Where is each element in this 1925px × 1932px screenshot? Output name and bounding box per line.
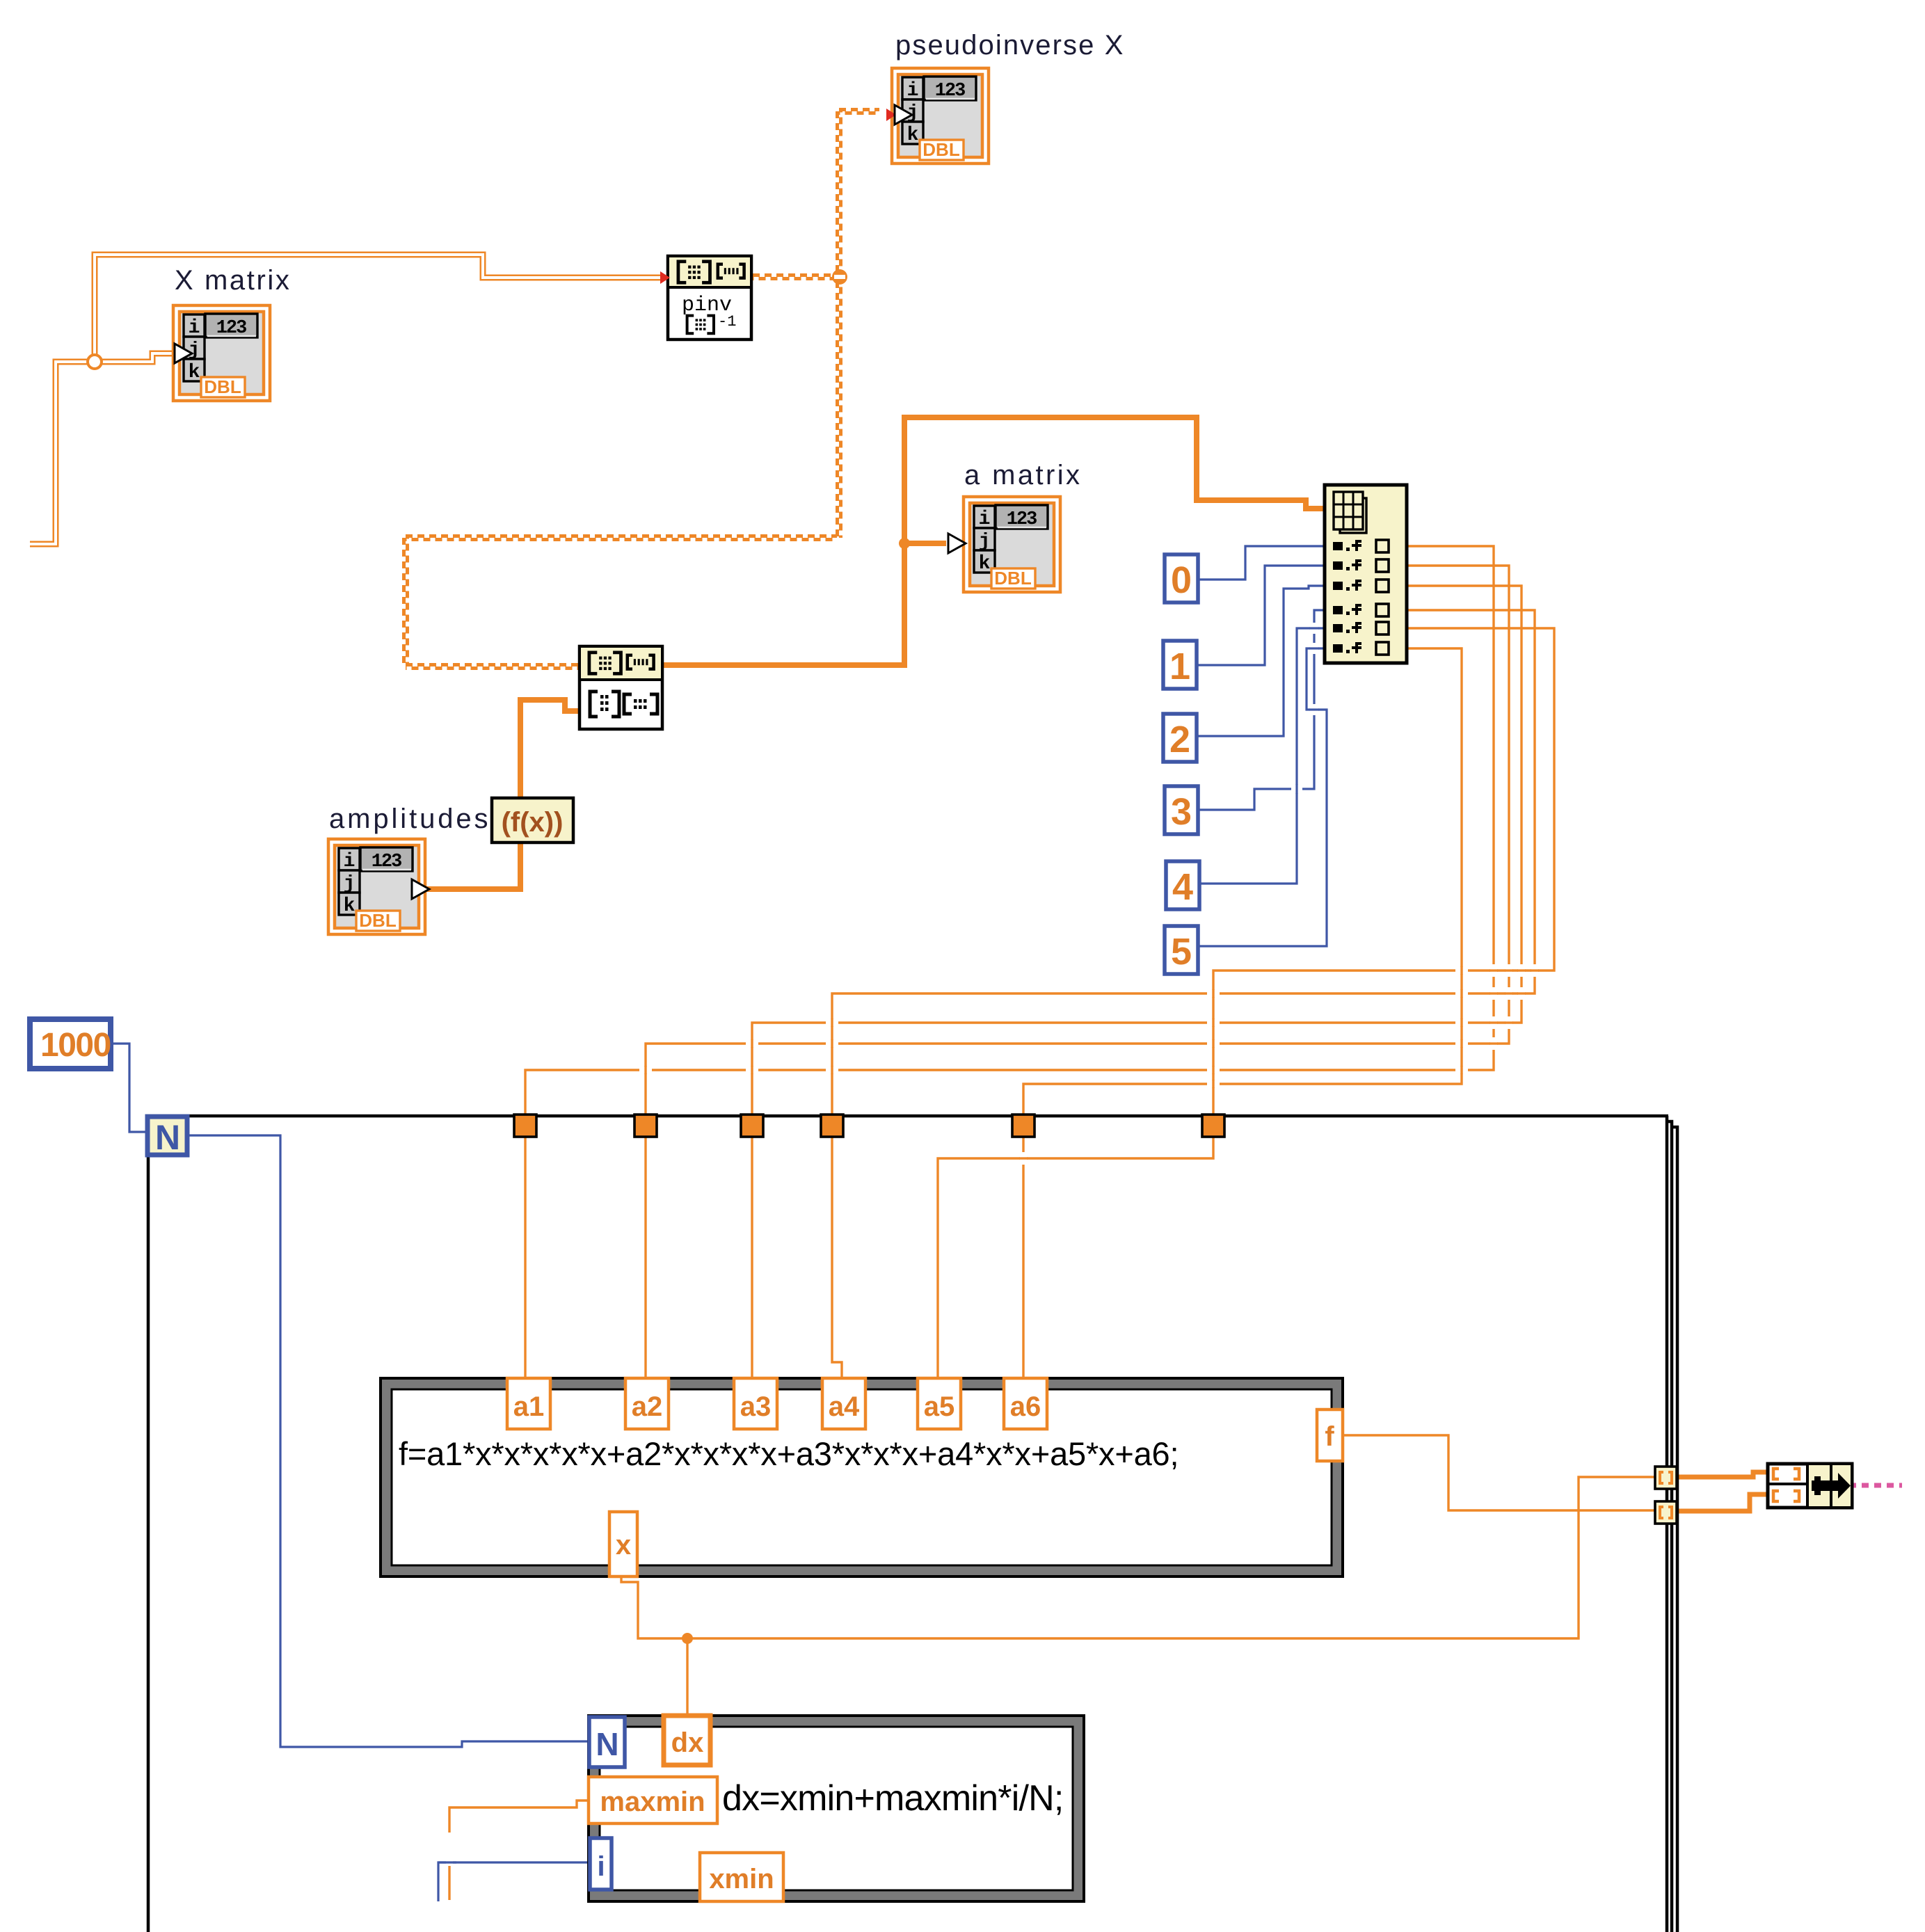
wire: tunnel to a2 <box>644 1127 646 1381</box>
wire: AxB result to Index Array <box>662 417 1326 665</box>
svg-text:xmin: xmin <box>709 1864 774 1894</box>
wire: index output row6 to loop tunnel <box>1023 648 1462 1115</box>
terminal N (formula 2) <box>589 1717 625 1767</box>
svg-text:N: N <box>596 1726 618 1762</box>
for loop count terminal N <box>147 1117 187 1155</box>
formula node 2 <box>589 1716 1084 1901</box>
bundle arrow <box>1812 1473 1851 1499</box>
wire: formula f output to tunnel <box>1343 1435 1656 1510</box>
svg-text:amplitudes: amplitudes <box>329 804 490 834</box>
svg-text:f=a1*x*x*x*x*x+a2*x*x*x*x+a3*x: f=a1*x*x*x*x*x+a2*x*x*x*x+a3*x*x*x+a4*x*… <box>399 1435 1179 1472</box>
svg-text:a4: a4 <box>829 1391 860 1422</box>
svg-text:N: N <box>155 1118 180 1157</box>
wire: constant 1 to index input 2 <box>1197 566 1325 665</box>
svg-text:2: 2 <box>1169 719 1190 760</box>
label box (f(x)) <box>492 798 573 843</box>
terminal f <box>1317 1410 1343 1461</box>
terminal a2 <box>625 1378 669 1429</box>
wire: matrix dashed into AxB multiply <box>406 663 580 666</box>
svg-text:x: x <box>616 1530 631 1560</box>
index row 1 glyphs <box>1333 540 1361 551</box>
index row 5 glyphs <box>1333 622 1361 633</box>
for loop top border <box>147 1115 1668 1118</box>
formula node 1 <box>381 1378 1343 1576</box>
svg-text:pseudoinverse X: pseudoinverse X <box>895 30 1124 61</box>
loop tunnel 2 <box>634 1115 657 1137</box>
wire: branch to X matrix input <box>91 353 174 362</box>
wire: matrix dashed vertical up to pseudoinverse X <box>836 111 839 273</box>
terminal xmin <box>700 1853 783 1901</box>
svg-text:-1: -1 <box>718 313 736 330</box>
wire: tunnel to a4 <box>832 1127 842 1381</box>
wire: matrix dashed horizontal left <box>406 534 837 538</box>
svg-text:a6: a6 <box>1010 1391 1041 1422</box>
svg-text:0: 0 <box>1171 559 1192 601</box>
wire: f array to bundle <box>1675 1494 1769 1511</box>
wire: tunnel to a6 <box>1022 1127 1024 1381</box>
loop tunnel 6 <box>1202 1115 1224 1137</box>
wire: X matrix branch to left edge <box>30 362 98 544</box>
wire: constant 5 to index input 6 <box>1197 648 1327 946</box>
wire: constant 2 to index input 3 <box>1197 586 1325 736</box>
wire crossing gaps (orange fan) <box>1455 967 1468 974</box>
svg-text:1000: 1000 <box>40 1027 111 1064</box>
indicator: pseudoinverse X <box>892 68 989 163</box>
svg-text:3: 3 <box>1171 791 1192 833</box>
wire: index output row5 to loop tunnel <box>1213 628 1554 1115</box>
wire: amplitudes to AxB <box>417 700 581 889</box>
wire crossing gaps (blue) <box>1291 785 1302 793</box>
loop tunnel 1 <box>514 1115 536 1137</box>
svg-text:1: 1 <box>1169 646 1190 687</box>
wire: index output row3 to loop tunnel <box>752 586 1521 1115</box>
wire: tunnel to a5 <box>938 1127 1213 1381</box>
node: pinv (pseudoinverse) <box>668 256 751 340</box>
wire: x array to bundle <box>1675 1472 1769 1477</box>
svg-text:maxmin: maxmin <box>600 1787 705 1817</box>
wire junction (X matrix) <box>88 355 102 369</box>
terminal dx <box>664 1716 710 1765</box>
wire: formula x output <box>621 1477 1656 1638</box>
wire: N to formula node N input <box>186 1135 590 1747</box>
for loop right border cascade <box>1666 1116 1669 1932</box>
wire: loop i to formula node i input <box>438 1862 591 1901</box>
wire: maxmin input <box>449 1801 590 1900</box>
wire junction (x/dx) <box>682 1633 693 1644</box>
svg-text:dx=xmin+maxmin*i/N;: dx=xmin+maxmin*i/N; <box>722 1778 1064 1819</box>
svg-text:4: 4 <box>1172 866 1193 908</box>
terminal a1 <box>507 1378 550 1429</box>
wire: 1000 to N count terminal <box>111 1044 147 1132</box>
svg-text:a1: a1 <box>513 1391 545 1422</box>
wire: index output row1 to loop tunnel <box>525 546 1494 1115</box>
wire: constant 3 to index input 4 <box>1197 610 1325 810</box>
svg-text:dx: dx <box>671 1727 704 1758</box>
loop indexing tunnel (upper) <box>1655 1467 1677 1489</box>
constant 3 <box>1165 786 1198 834</box>
wire: matrix dashed vertical down <box>836 281 839 538</box>
terminal maxmin <box>589 1777 717 1823</box>
terminal a6 <box>1004 1378 1047 1429</box>
node: A x B (matrix multiply) <box>580 646 662 729</box>
control: amplitudes <box>328 839 425 934</box>
loop tunnel 3 <box>741 1115 763 1137</box>
wire: matrix dashed vertical left segment <box>402 538 406 666</box>
loop tunnel 4 <box>821 1115 843 1137</box>
gap in maxmin wire <box>446 1833 453 1866</box>
matrix grid icon <box>1340 498 1366 533</box>
wire: branch to dx input <box>686 1638 688 1717</box>
index row 6 glyphs <box>1333 642 1361 653</box>
wire: index output row4 to loop tunnel <box>832 610 1535 1115</box>
svg-text:X matrix: X matrix <box>175 265 291 296</box>
terminal x <box>609 1512 637 1576</box>
index row 4 glyphs <box>1333 604 1361 615</box>
svg-text:5: 5 <box>1171 931 1192 973</box>
index row 3 glyphs <box>1333 580 1361 591</box>
wire: pinv output (matrix, dashed) <box>753 273 835 277</box>
wire: constant 0 to index input 1 <box>1197 546 1325 580</box>
constant 5 <box>1165 926 1198 974</box>
svg-text:i: i <box>597 1851 605 1882</box>
svg-text:(f(x)): (f(x)) <box>502 807 564 838</box>
constant 1000 <box>30 1019 111 1069</box>
svg-text:a3: a3 <box>740 1391 772 1422</box>
terminal a3 <box>734 1378 777 1429</box>
wire junction (a matrix) <box>899 538 910 549</box>
constant 2 <box>1163 714 1197 762</box>
svg-text:a5: a5 <box>924 1391 955 1422</box>
constant 1 <box>1163 641 1197 689</box>
node: Bundle <box>1768 1464 1852 1508</box>
indicator: X matrix <box>173 305 270 401</box>
constant 0 <box>1165 554 1198 602</box>
loop indexing tunnel (lower) <box>1655 1501 1677 1524</box>
for loop left border <box>147 1115 150 1932</box>
wire: branch to a matrix <box>904 541 946 546</box>
wire: index output row2 to loop tunnel <box>646 566 1509 1115</box>
svg-text:f: f <box>1325 1421 1334 1452</box>
loop tunnel 5 <box>1012 1115 1035 1137</box>
terminal i <box>590 1838 612 1890</box>
wire: matrix dashed into pseudoinverse X <box>839 108 879 111</box>
terminal a5 <box>918 1378 961 1429</box>
wire: tunnel to a1 <box>524 1127 526 1381</box>
terminal a4 <box>822 1378 865 1429</box>
wire: constant 4 to index input 5 <box>1199 628 1325 884</box>
dashed wire junction <box>832 269 847 285</box>
constant 4 <box>1166 861 1199 909</box>
indicator: a matrix <box>964 497 1060 592</box>
node: Index Array (matrix elements) <box>1325 485 1407 663</box>
svg-text:a matrix: a matrix <box>964 460 1082 490</box>
wire: bundle output (cluster, pink dashed) <box>1852 1483 1902 1488</box>
wire: tunnel to a3 <box>751 1127 753 1381</box>
index row 2 glyphs <box>1333 559 1361 570</box>
svg-text:a2: a2 <box>632 1391 663 1422</box>
wire: X matrix to pinv (2D array) <box>95 255 660 365</box>
